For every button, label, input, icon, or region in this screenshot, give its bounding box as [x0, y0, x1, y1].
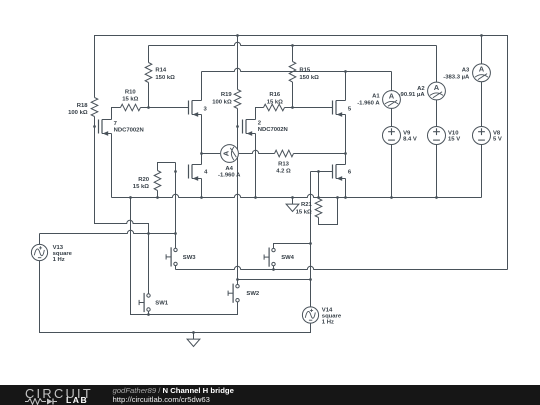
wire M7 source lead to main row — [111, 134, 113, 198]
wire main source row — [112, 145, 482, 198]
resistor R10 — [121, 104, 141, 111]
wire A2 to V10 — [436, 100, 438, 127]
node junction R14 bottom — [147, 106, 150, 109]
svg-text:V13: V13 — [53, 245, 64, 251]
svg-text:-90.91 µA: -90.91 µA — [399, 92, 426, 98]
node junction SW1 bottom — [147, 313, 150, 316]
wire SW4 top lead to V14 column — [274, 244, 311, 249]
svg-text:NDC7002N: NDC7002N — [258, 127, 288, 133]
label R15 value — [299, 68, 319, 81]
wire V14 column from M6 gate down to V14 top — [310, 172, 312, 307]
svg-text:R13: R13 — [278, 161, 290, 167]
svg-text:R16: R16 — [269, 92, 281, 98]
svg-text:R20: R20 — [138, 177, 150, 183]
wire M2 source lead to main row — [255, 134, 257, 198]
wire A4 left lead — [202, 153, 221, 155]
wire M4 source lead to main row — [201, 179, 203, 198]
label R18 value — [68, 103, 88, 116]
svg-text:15 kΩ: 15 kΩ — [267, 99, 283, 105]
label R13 value — [276, 161, 291, 174]
wire R16 left lead down to M2 drain — [256, 108, 264, 120]
node junction second rail at R15 top — [291, 44, 294, 47]
transistor Q6 — [333, 165, 352, 181]
svg-text:SW3: SW3 — [183, 255, 196, 261]
node junction V10 bottom — [435, 196, 438, 199]
wire A1 to V9 — [391, 109, 393, 127]
node junction M3 source / M4 drain / A4 — [200, 152, 203, 155]
voltage source V9 — [383, 127, 401, 145]
svg-text:6: 6 — [348, 170, 352, 176]
node junction M6 source — [344, 196, 347, 199]
node junction at M6 drain column — [344, 152, 347, 155]
label V8 value — [493, 131, 502, 143]
node junction SW4 top at V14 column — [309, 242, 312, 245]
wire SW3 bottom to row D — [175, 266, 177, 270]
svg-text:-383.3 µA: -383.3 µA — [443, 75, 470, 81]
node junction M2 gate on R19 column — [236, 125, 239, 128]
wire M6 source lead to main row — [345, 179, 347, 198]
wire R21 top lead — [318, 172, 320, 199]
transistor Q5 — [333, 101, 352, 117]
wire M3 drain row to A1 top — [202, 68, 392, 100]
ammeter A3 — [473, 64, 491, 82]
node junction R20 bottom — [156, 196, 159, 199]
wire M6 gate corner to V14 column — [311, 171, 333, 173]
wire R18 bottom lead to M7 gate node — [94, 117, 96, 127]
resistor R20 — [154, 171, 161, 191]
svg-text:R15: R15 — [299, 68, 311, 74]
wire R20 top to M4 gate column — [158, 163, 176, 171]
svg-text:A: A — [221, 150, 230, 156]
wire gate row R10 to M3 gate — [141, 107, 189, 109]
wire R20 bottom lead — [157, 191, 159, 198]
svg-text:A: A — [434, 83, 440, 92]
label A1 value — [357, 94, 380, 107]
svg-text:5 V: 5 V — [493, 137, 502, 143]
wire A3 column from top rail to V8 — [481, 36, 483, 127]
label R10 value — [122, 90, 138, 103]
node junction R21 lead crossing — [317, 196, 320, 199]
wire R21 bottom loop — [319, 198, 338, 225]
node junction V9 bottom — [390, 196, 393, 199]
label V10 value — [448, 131, 460, 143]
node junction R21 loop — [336, 196, 339, 199]
node junction M4 source — [200, 196, 203, 199]
ground G2 under bottom row — [187, 333, 200, 347]
svg-text:A: A — [389, 91, 395, 100]
svg-text:1 Hz: 1 Hz — [322, 320, 334, 326]
transistor Q2 NDC7002N — [243, 120, 262, 136]
wire left column M7 gate node down and jog to SW1 top — [95, 127, 149, 294]
svg-text:7: 7 — [114, 121, 118, 127]
label R19 value — [212, 92, 232, 105]
svg-text:A: A — [479, 65, 485, 74]
label A4 value — [218, 166, 241, 178]
svg-text:R19: R19 — [221, 92, 233, 98]
svg-text:5: 5 — [348, 107, 352, 113]
resistor R19 — [234, 90, 241, 109]
node junction R15 bottom node — [291, 106, 294, 109]
node junction row E left — [236, 278, 239, 281]
transistor Q3 — [189, 101, 208, 117]
node junction top rail at R19 column — [236, 34, 239, 37]
voltage source V13 square 1 Hz — [31, 244, 47, 260]
ammeter A4 — [221, 145, 239, 163]
wire R16 right lead to R15 column — [285, 107, 293, 109]
svg-text:1 Hz: 1 Hz — [53, 257, 65, 263]
svg-text:15 V: 15 V — [448, 137, 460, 143]
ammeter A2 — [428, 82, 446, 100]
wire M5 source lead to R13 row — [345, 115, 347, 154]
svg-text:A1: A1 — [372, 94, 380, 100]
svg-text:V14: V14 — [322, 308, 333, 314]
resistor R15 — [289, 62, 296, 83]
node junction M7 gate / R18 — [93, 125, 96, 128]
node junction SW1 top on V13 row — [147, 232, 150, 235]
wire R14 bottom lead — [148, 83, 150, 108]
transistor Q4 — [189, 165, 209, 181]
svg-text:R10: R10 — [125, 90, 137, 96]
svg-text:100 kΩ: 100 kΩ — [68, 110, 88, 116]
svg-text:-1.960 A: -1.960 A — [357, 101, 380, 107]
resistor R21 — [315, 199, 322, 218]
transistor Q7 NDC7002N — [99, 120, 118, 136]
wire R19 column from top rail to SW2 top — [237, 36, 239, 285]
label R20 value — [133, 177, 150, 190]
wire SW1 bottom lead — [148, 311, 150, 314]
wire R13 right lead to M5 source / M6 drain — [294, 153, 346, 155]
voltage source V14 square 1 Hz — [302, 307, 318, 323]
node junction R21 top on gate wire — [317, 170, 320, 173]
wire row D from SW3 to right edge column — [176, 266, 508, 269]
node junction M2 source — [254, 196, 257, 199]
wire A4 right lead to R13 hopping M2 source — [239, 150, 275, 153]
wire R15 leads — [292, 46, 294, 108]
wire left drop column from main row to SW1/SW2 bottom row — [131, 198, 238, 315]
wire M3 source lead to A4 row — [201, 115, 203, 154]
voltage source V8 — [473, 127, 491, 145]
label R14 value — [155, 68, 175, 81]
label R16 value — [267, 92, 283, 105]
wire row E linking R19 column and V14 column — [238, 279, 311, 281]
svg-text:R18: R18 — [77, 103, 89, 109]
node junction top rail at A3 column — [480, 34, 483, 37]
svg-text:SW1: SW1 — [155, 301, 168, 307]
svg-text:15 kΩ: 15 kΩ — [133, 184, 149, 190]
svg-text:NDC7002N: NDC7002N — [114, 128, 144, 134]
wire top rail from R18 top across to right edge down to SW3 net — [95, 36, 508, 270]
wire M5 drain lead to row3 — [345, 72, 347, 101]
node junction M4 gate — [174, 170, 177, 173]
resistor R14 — [145, 63, 152, 83]
svg-text:100 kΩ: 100 kΩ — [212, 99, 232, 105]
wire M5 gate lead from R15 node — [293, 107, 333, 109]
switch SW1 — [139, 293, 169, 312]
svg-text:R14: R14 — [155, 68, 167, 74]
wire M6 drain lead to R13 row — [345, 154, 347, 165]
svg-text:3: 3 — [204, 107, 208, 113]
svg-text:15 kΩ: 15 kΩ — [296, 210, 312, 216]
switch SW2 — [228, 284, 260, 303]
node junction ground stub G2 — [192, 331, 195, 334]
switch SW3 — [166, 247, 196, 266]
switch SW4 — [264, 248, 295, 267]
voltage source V10 — [428, 127, 446, 145]
wire M4 drain lead to A4 row — [201, 154, 203, 165]
svg-text:R21: R21 — [301, 202, 313, 208]
node junction ground stub G1 — [291, 196, 294, 199]
resistor R13 — [275, 150, 294, 157]
wire V13 top row to SW3 column — [40, 230, 176, 244]
wire SW4 bottom lead — [273, 266, 275, 270]
svg-text:A2: A2 — [417, 86, 425, 92]
ammeter A1 — [383, 91, 401, 109]
resistor R18 — [91, 98, 98, 117]
svg-text:4: 4 — [204, 170, 208, 176]
svg-text:2: 2 — [258, 121, 262, 127]
svg-text:15 kΩ: 15 kΩ — [122, 96, 138, 102]
label V13 value — [53, 245, 73, 263]
label V14 value — [322, 308, 342, 326]
wire SW3 column from R20 node to SW3 top — [175, 163, 177, 249]
node junction SW3 column at V13 row — [174, 232, 177, 235]
svg-text:150 kΩ: 150 kΩ — [299, 75, 319, 81]
svg-text:A4: A4 — [225, 166, 233, 172]
label R21 value — [296, 202, 313, 216]
resistor R16 — [264, 104, 285, 111]
svg-text:-1.960 A: -1.960 A — [218, 172, 241, 178]
svg-text:SW2: SW2 — [246, 291, 259, 297]
label A3 value — [443, 67, 470, 80]
node junction M5 drain on row — [344, 70, 347, 73]
wire V10 bottom lead — [436, 145, 438, 198]
svg-text:4.2 Ω: 4.2 Ω — [276, 168, 291, 174]
label A2 value — [399, 86, 426, 98]
svg-text:A3: A3 — [462, 67, 470, 73]
svg-text:150 kΩ: 150 kΩ — [155, 75, 175, 81]
wire ground row from V13 bottom to V14 bottom — [40, 261, 311, 333]
wire R10 left lead from M7 drain — [112, 108, 121, 120]
ground G1 under main row — [286, 198, 299, 212]
label V9 value — [403, 131, 417, 143]
wire second rail from R14 top to A2 top — [149, 42, 437, 82]
node junction main row at left column — [129, 196, 132, 199]
svg-text:8.4 V: 8.4 V — [403, 137, 417, 143]
svg-text:SW4: SW4 — [281, 255, 294, 261]
node junction SW4 bottom — [272, 268, 275, 271]
node junction row E right — [309, 278, 312, 281]
wire V9 bottom lead — [391, 145, 393, 198]
